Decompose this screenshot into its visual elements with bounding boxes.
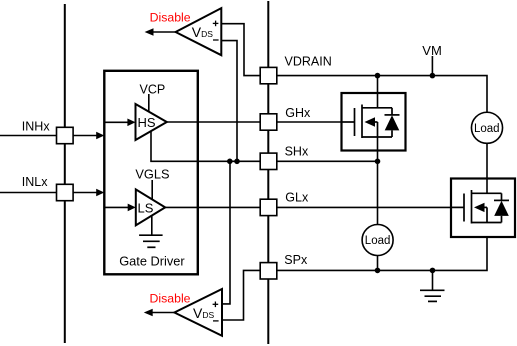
- wire LS ground stem: [151, 210, 153, 235]
- load circle bottom: [362, 225, 393, 256]
- wire GLx from LS output to pad: [165, 206, 260, 208]
- transistor Q2 low-side MOSFET box: [451, 179, 515, 238]
- svg-text:INLx: INLx: [22, 175, 48, 189]
- svg-text:GLx: GLx: [285, 191, 309, 205]
- wire Q1 drain lead: [377, 76, 379, 108]
- svg-text:Gate Driver: Gate Driver: [119, 253, 185, 268]
- wire INLx input: [0, 192, 97, 194]
- wire GHx from HS output to pad: [167, 121, 260, 123]
- transistor Q1 high-side MOSFET box: [342, 93, 406, 151]
- svg-text:SHx: SHx: [285, 145, 309, 159]
- pad INHx: [57, 127, 74, 143]
- comparator VDS top: [176, 8, 222, 55]
- arrowhead INHx into gate driver: [96, 132, 104, 140]
- wire bottom comparator output: [152, 312, 175, 314]
- transistor Q2 internals: [452, 190, 509, 224]
- node SHx junction to bottom comparator: [227, 159, 233, 165]
- svg-text:Load: Load: [365, 235, 391, 247]
- transistor Q1 body arrow: [365, 117, 376, 126]
- node SHx junction to top comparator: [234, 159, 240, 165]
- arrowhead into HS buffer: [127, 119, 135, 127]
- wire GLx to low-side gate: [277, 206, 464, 208]
- pad SHx: [260, 153, 277, 169]
- pad VDRAIN: [260, 67, 277, 83]
- wire Q1 source lead to load: [377, 137, 379, 225]
- wire VCP stem: [148, 94, 150, 113]
- pad SPx: [260, 263, 277, 279]
- op-amp HS buffer: [136, 104, 167, 140]
- svg-text:Load: Load: [474, 123, 500, 135]
- wire top comparator minus input to SHx: [221, 41, 237, 162]
- wire SPx rail to right: [277, 223, 487, 271]
- wire LS driver input: [104, 206, 129, 208]
- load circle right: [471, 112, 502, 143]
- arrowhead top disable output: [145, 28, 154, 36]
- arrowhead INLx into gate driver: [96, 189, 104, 197]
- wire ground stem: [432, 270, 434, 290]
- wire SHx to switch node: [277, 160, 378, 162]
- wire Q2 drain lead: [486, 143, 488, 193]
- svg-text:LS: LS: [138, 201, 154, 216]
- pad INLx: [57, 184, 74, 200]
- wire GHx to high-side gate: [277, 121, 355, 123]
- svg-text:INHx: INHx: [22, 120, 51, 134]
- svg-text:VCP: VCP: [140, 82, 166, 96]
- node SPx load bottom: [375, 268, 381, 274]
- middle pin bus line: [267, 1, 269, 344]
- label plus top comparator: [213, 21, 219, 27]
- arrowhead bottom disable output: [144, 309, 153, 317]
- wire VDRAIN rail to right: [277, 76, 487, 112]
- wire HS driver input: [104, 121, 128, 123]
- wire VGLS stem: [151, 180, 153, 202]
- op-amp LS buffer: [136, 189, 165, 225]
- transistor Q2 body arrow: [474, 203, 485, 212]
- svg-text:SPx: SPx: [284, 253, 308, 267]
- pad GHx: [260, 114, 277, 130]
- svg-text:Disable: Disable: [150, 291, 191, 305]
- label minus bottom comparator: [213, 320, 219, 322]
- node SPx ground: [430, 268, 436, 274]
- svg-text:VM: VM: [422, 43, 442, 58]
- diode D2 body diode: [494, 201, 509, 216]
- wire load bottom to SPx: [377, 256, 379, 271]
- wire INHx input: [0, 135, 97, 137]
- node VM: [430, 73, 436, 79]
- svg-text:GHx: GHx: [285, 106, 311, 120]
- svg-text:HS: HS: [138, 115, 156, 130]
- wire top comparator output: [153, 31, 176, 33]
- wire HS source reference to SHx: [151, 126, 260, 161]
- pad GLx: [260, 199, 277, 215]
- transistor Q1 internals: [343, 105, 400, 139]
- label minus top comparator: [213, 39, 219, 41]
- wire VM stem: [431, 56, 433, 76]
- wire top comparator plus input to VDRAIN: [221, 24, 260, 76]
- left input bus line: [64, 4, 66, 343]
- ground symbol bottom right: [420, 290, 445, 301]
- svg-text:VDRAIN: VDRAIN: [285, 54, 332, 68]
- svg-text:Disable: Disable: [150, 11, 191, 25]
- arrowhead into LS buffer: [128, 204, 136, 212]
- comparator VDS bottom: [174, 289, 222, 336]
- wire bottom comparator plus input to SHx: [222, 161, 230, 304]
- label plus bottom comparator: [213, 302, 219, 308]
- wire bottom comparator minus input to SPx: [222, 270, 260, 320]
- node switch node SHx load: [375, 159, 381, 165]
- gate driver box: [104, 71, 198, 274]
- diode D1 body diode: [385, 115, 400, 130]
- svg-text:VGLS: VGLS: [135, 166, 169, 181]
- ground symbol in gate driver: [139, 235, 163, 247]
- node VDRAIN to Q1 drain: [375, 73, 381, 79]
